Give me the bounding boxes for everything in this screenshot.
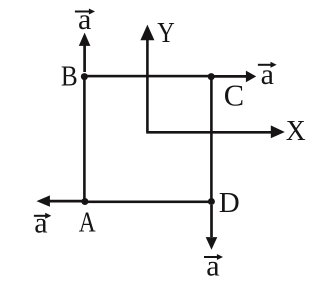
square ABCD [84,76,211,202]
node D [208,198,215,205]
svg-text:Y: Y [157,17,175,49]
svg-text:C: C [224,79,244,113]
X axis [146,125,285,138]
node C [208,73,215,80]
svg-text:B: B [61,61,78,93]
svg-text:X: X [286,115,306,147]
svg-text:a: a [34,206,47,239]
Y axis [140,25,154,133]
svg-text:A: A [79,207,96,239]
svg-text:a: a [261,58,274,91]
vector label a (right of C arrow) [258,58,277,91]
vector arrow at B (up) [79,33,91,72]
vector arrow at A (left) [37,195,83,206]
vector label a (above B) [75,3,95,36]
svg-text:a: a [206,250,219,281]
vector arrow at D (down) [206,205,218,250]
svg-text:D: D [219,187,240,219]
node B [81,73,88,80]
svg-text:a: a [78,3,91,36]
vector label a (below D) [204,250,223,281]
vector arrow at C (right) [214,71,256,83]
vector label a (below A arrow) [34,206,51,239]
node A [81,198,88,205]
